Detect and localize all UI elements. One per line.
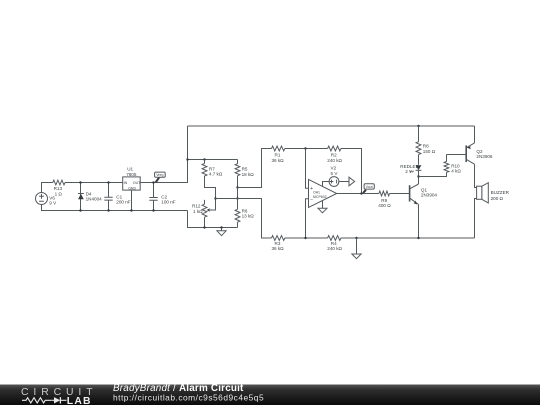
svg-text:2 V: 2 V (405, 169, 413, 174)
capacitor C2 (149, 183, 175, 211)
regulator U1 7805 (123, 167, 141, 191)
node C1 bottom (107, 209, 109, 211)
svg-text:240 kΩ: 240 kΩ (327, 158, 342, 163)
svg-text:18 kΩ: 18 kΩ (242, 172, 255, 177)
svg-text:Vreg: Vreg (156, 173, 163, 177)
node diode bottom (79, 209, 81, 211)
node inverting tap (304, 237, 306, 239)
svg-text:4 kΩ: 4 kΩ (451, 169, 461, 174)
svg-text:150 Ω: 150 Ω (423, 149, 436, 154)
transistor Q2 2N3906 (466, 143, 493, 164)
wire Vreg top rail (188, 125, 475, 127)
svg-text:100 nF: 100 nF (161, 200, 175, 205)
svg-text:1 kΩ: 1 kΩ (193, 209, 203, 214)
wire ground rail drop to divider rail (188, 211, 238, 228)
svg-text:200 nF: 200 nF (116, 200, 130, 205)
resistor R3 (272, 236, 285, 251)
wire Q2 collector to buzzer (475, 164, 477, 187)
node U1 gnd (130, 209, 132, 211)
wire minus input (306, 199, 309, 238)
ground GND2 (352, 238, 361, 259)
node diode top (79, 181, 81, 183)
wire divider feed rail (188, 159, 238, 161)
wire R5 node down (237, 188, 239, 199)
wire R9 to Q1 base (390, 193, 410, 195)
resistor R10 (444, 155, 461, 174)
svg-text:2N3904: 2N3904 (421, 193, 438, 198)
node R5 bottom (236, 186, 238, 188)
node R7 top tap (203, 158, 205, 160)
wire R5 node to R1 riser (238, 149, 272, 188)
wire opamp output (337, 193, 379, 195)
svg-text:2N3906: 2N3906 (476, 154, 493, 159)
svg-text:http://circuitlab.com/c9s56d9c: http://circuitlab.com/c9s56d9c4e5q5 (113, 392, 264, 402)
resistor R8 (416, 126, 436, 165)
node divider mid rail (236, 197, 238, 199)
node gnd tap (220, 226, 222, 228)
wire opamp V+ stub (323, 182, 330, 187)
svg-text:LAB: LAB (67, 396, 92, 405)
wire R2 to output riser (341, 149, 362, 194)
svg-text:7805: 7805 (126, 172, 137, 177)
wire V6 top lead (42, 183, 53, 193)
node gnd rail tap (355, 237, 357, 239)
footer bar (0, 385, 540, 405)
svg-text:200 Ω: 200 Ω (491, 196, 504, 201)
power arrow (349, 177, 355, 186)
wire Q1 collector up (418, 177, 420, 185)
svg-text:400 Ω: 400 Ω (378, 203, 391, 208)
wire R7 bottom to mid node (205, 176, 216, 210)
node R12 bottom (203, 226, 205, 228)
node mid divider (214, 197, 216, 199)
wire buzzer bottom to gnd rail (475, 199, 477, 239)
ground opamp (318, 201, 327, 213)
node C1 top (107, 181, 109, 183)
voltage source V6 (36, 193, 58, 206)
logo resistor squiggle (22, 398, 51, 403)
wire mid rail (216, 199, 272, 239)
node top rail R8 tap (417, 125, 419, 127)
wire plus input (306, 149, 309, 189)
resistor R7 (202, 160, 223, 177)
ground GND1 (217, 228, 226, 236)
wire U1 OUT to Vreg corner (140, 126, 187, 183)
svg-text:36 kΩ: 36 kΩ (272, 246, 285, 251)
node rail tap (186, 158, 188, 160)
wire R4 to gnd rail (341, 237, 475, 239)
buzzer BUZZER (477, 183, 510, 203)
svg-text:36 kΩ: 36 kΩ (272, 158, 285, 163)
svg-text:4.7 kΩ: 4.7 kΩ (209, 172, 223, 177)
resistor R6 (235, 199, 254, 228)
wire R13 to U1 IN (65, 182, 123, 184)
op-amp OA1 MCP602 (309, 179, 337, 207)
LED REDLED (400, 164, 421, 177)
svg-text:5 V: 5 V (331, 171, 339, 176)
wire top rail to Q2 emitter (474, 126, 476, 143)
wire U1 GND stub (131, 190, 133, 210)
svg-text:OUT: OUT (133, 181, 141, 185)
transistor Q1 2N3904 (410, 184, 438, 205)
node C2 top (152, 181, 154, 183)
node Q1 emitter gnd (417, 237, 419, 239)
logo diode (51, 397, 66, 403)
potentiometer R12 (192, 200, 210, 228)
svg-text:13 kΩ: 13 kΩ (242, 214, 255, 219)
svg-text:BUZZER: BUZZER (491, 190, 510, 195)
wire Q1 emitter down (418, 204, 420, 238)
svg-text:IN: IN (124, 181, 128, 185)
node C2 bottom (152, 209, 154, 211)
svg-text:1 Ω: 1 Ω (55, 191, 63, 196)
voltage source V2 (329, 166, 339, 187)
svg-text:1N4004: 1N4004 (86, 197, 103, 202)
node flag Vout (363, 184, 374, 193)
node flag Vreg (155, 172, 166, 182)
capacitor C1 (104, 183, 130, 211)
resistor R1 (272, 146, 285, 163)
resistor R2 (327, 146, 342, 163)
wire R3 to R4 (285, 237, 328, 239)
node LED cathode (417, 175, 419, 177)
wire LED node to R10 (419, 172, 447, 176)
resistor R9 (378, 191, 391, 208)
svg-text:GND: GND (128, 186, 136, 190)
resistor R5 (235, 160, 254, 188)
resistor R13 (53, 180, 65, 196)
svg-text:240 kΩ: 240 kΩ (327, 246, 342, 251)
node output feedback (360, 192, 362, 194)
diode D4 (78, 183, 102, 211)
node noninverting tap (304, 147, 306, 149)
wire V2 to supply arrow (339, 181, 349, 183)
svg-text:Vout: Vout (366, 185, 373, 189)
wire V6 bottom lead / ground rail (42, 205, 188, 211)
wire R1 to R2 (285, 148, 328, 150)
svg-text:OA1: OA1 (313, 190, 320, 194)
svg-text:MCP602: MCP602 (313, 195, 327, 199)
wire R10 to Q2 base (447, 154, 466, 156)
svg-text:9 V: 9 V (49, 201, 57, 206)
resistor R4 (327, 236, 342, 251)
